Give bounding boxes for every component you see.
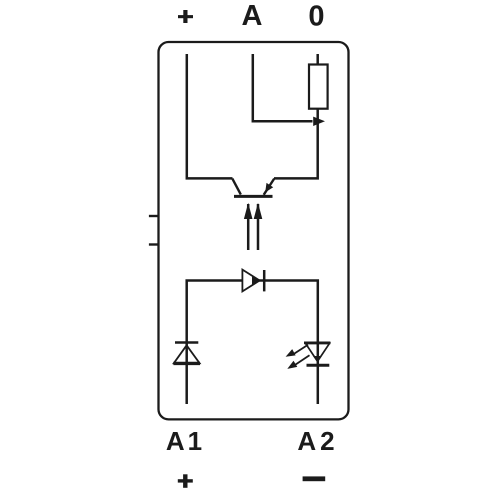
transistor Q1 collector slant: [232, 179, 241, 195]
diode D1 filled apex: [252, 276, 260, 284]
LED D3 anode top edge (thick): [304, 342, 330, 345]
light coupling arrow right (head): [254, 203, 263, 219]
diode D2 triangle outline: [174, 345, 200, 363]
svg-text:A1: A1: [166, 426, 205, 456]
LED D3 emission arrow upper (head): [286, 349, 296, 357]
light coupling arrow left (shaft): [247, 204, 250, 250]
LED D3 emission arrow lower (head): [287, 361, 297, 369]
arrowhead into resistor node junction: [313, 117, 325, 126]
transistor Q1 emitter slant: [264, 179, 275, 195]
LED D3 emission arrow upper (shaft): [293, 345, 309, 355]
transistor Q1 emitter arrowhead (points to base): [265, 183, 273, 193]
LED D3 cathode bar: [307, 364, 330, 367]
LED D3 filled apex: [313, 356, 322, 362]
wire from + terminal down to transistor collector: [187, 54, 233, 178]
diode D1 cathode bar: [263, 270, 266, 291]
LED D3 emission arrow lower (shaft): [295, 355, 310, 365]
light coupling arrow right (shaft): [257, 204, 260, 250]
module outline (relay body): [159, 42, 349, 419]
resistor R (series resistor): [309, 65, 328, 109]
svg-text:A: A: [242, 0, 263, 32]
svg-text:0: 0: [308, 0, 324, 32]
light coupling arrow left (head): [244, 203, 253, 219]
polarity - under A2: [303, 476, 326, 481]
wire from A terminal down then right to resistor node: [253, 54, 313, 121]
svg-text:A2: A2: [297, 426, 338, 456]
transistor Q1 base bar: [234, 195, 273, 198]
resistor R bottom lead down to emitter wire: [274, 109, 318, 179]
diode D2 (left branch, cathode up) cathode bar: [175, 341, 198, 344]
resistor R top lead from 0 terminal: [316, 54, 319, 65]
diode D1 (series diode, pointing right) triangle: [242, 270, 259, 292]
coil terminal tick mark lower on left border: [149, 243, 159, 245]
wire lower loop A1 side up, across, down to A2 side: [187, 281, 318, 405]
diode D2 anode base bar (thick): [173, 362, 200, 365]
coil terminal tick mark upper on left border: [149, 215, 159, 217]
polarity + under A1: [178, 474, 193, 488]
node + (top terminal label drawn as bars): [178, 10, 193, 23]
LED D3 triangle outline (cathode down): [306, 343, 330, 361]
